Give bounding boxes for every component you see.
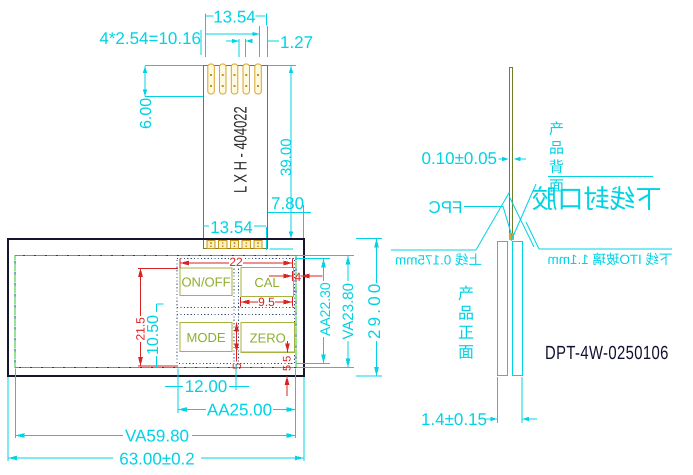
dim 12.00 [165, 386, 249, 388]
svg-text:5: 5 [230, 363, 244, 370]
button CAL [241, 268, 294, 297]
dim VA23.80 (right) [297, 256, 355, 368]
svg-text:29.00: 29.00 [365, 280, 384, 339]
red dim 22 [180, 259, 293, 269]
cyan dim 10.50 [157, 304, 164, 368]
svg-text:9.5: 9.5 [258, 295, 275, 309]
svg-text:13.54: 13.54 [213, 8, 256, 27]
red dim 4 [269, 275, 293, 277]
svg-text:1.27: 1.27 [280, 33, 313, 52]
FPC bottom pads [207, 241, 262, 249]
dim VA59.80 [15, 435, 295, 437]
svg-text:产: 产 [549, 121, 564, 138]
FPC pin 4 [243, 64, 250, 94]
red dim 21.5 [138, 268, 178, 366]
svg-text:AA22.30: AA22.30 [317, 282, 333, 336]
svg-text:VA23.80: VA23.80 [340, 283, 357, 339]
FPC pin 2 [220, 64, 227, 94]
dim 29.00 (right) [356, 239, 382, 377]
FPC body outline [204, 66, 268, 249]
button MODE [180, 323, 232, 352]
FPC pin 5 [255, 64, 261, 94]
svg-text:背: 背 [549, 159, 564, 176]
svg-text:ON/OFF: ON/OFF [181, 275, 230, 290]
label 上线 0.175mm (mirrored) [391, 249, 476, 251]
glass layer left [498, 242, 508, 376]
svg-text:品: 品 [458, 306, 474, 323]
dim AA25.00 [178, 409, 296, 411]
svg-text:下线封口胶: 下线封口胶 [531, 184, 661, 214]
label 下线封口胶 (mirrored) [548, 176, 653, 178]
svg-text:39.00: 39.00 [278, 138, 295, 176]
red dim 5.5 [287, 341, 289, 352]
svg-text:63.00±0.2: 63.00±0.2 [119, 450, 195, 469]
svg-text:CAL: CAL [254, 275, 279, 290]
dim 13.54 (top) [206, 14, 267, 31]
FPC pin 3 [231, 64, 238, 94]
svg-text:下线 ITO玻璃 1.1mm: 下线 ITO玻璃 1.1mm [547, 252, 672, 267]
svg-text:上线 0.175mm: 上线 0.175mm [395, 253, 482, 268]
svg-text:6.00: 6.00 [138, 98, 155, 129]
gold tip [509, 233, 514, 240]
svg-text:AA25.00: AA25.00 [207, 401, 272, 420]
red dim 9.5 [241, 297, 293, 307]
dim 63.00±0.2 [8, 457, 304, 459]
svg-text:5.5: 5.5 [282, 356, 294, 371]
svg-text:4: 4 [295, 270, 302, 284]
svg-text:L X H - 404022: L X H - 404022 [231, 106, 251, 193]
glass layer right [513, 242, 523, 376]
svg-text:FPC: FPC [429, 198, 463, 217]
svg-text:4*2.54=10.16: 4*2.54=10.16 [99, 29, 201, 48]
svg-text:正: 正 [458, 325, 474, 342]
svg-text:ZERO: ZERO [250, 331, 286, 346]
svg-text:13.54: 13.54 [210, 218, 253, 237]
FPC side line [510, 68, 513, 240]
small mid dim ticks [226, 40, 253, 42]
dim 6.00 [145, 66, 203, 97]
LCD module outline [8, 239, 304, 376]
svg-text:品: 品 [549, 140, 564, 157]
FPC pin 1 [208, 64, 215, 94]
svg-text:面: 面 [458, 345, 474, 362]
svg-text:10.50: 10.50 [145, 315, 162, 355]
button ZERO [241, 323, 295, 353]
svg-text:DPT-4W-0250106: DPT-4W-0250106 [545, 343, 669, 364]
dim 1.27 [268, 40, 280, 42]
svg-text:12.00: 12.00 [185, 377, 228, 396]
red dim between MODE/ZERO (5) [236, 323, 238, 362]
AA dotted grid [177, 259, 295, 364]
svg-text:VA59.80: VA59.80 [125, 427, 189, 446]
button ON/OFF [180, 268, 232, 296]
svg-text:22: 22 [229, 255, 243, 269]
svg-text:MODE: MODE [187, 330, 226, 345]
dim AA22.30 (right) [296, 259, 330, 364]
VA dashed rectangle [15, 256, 296, 368]
dim 39.00 [268, 66, 296, 239]
svg-text:0.10±0.05: 0.10±0.05 [421, 149, 497, 168]
svg-text:7.80: 7.80 [271, 194, 304, 213]
svg-text:产: 产 [458, 285, 474, 303]
bottom extension lines [8, 364, 304, 461]
label 下线 ITO玻璃 1.1mm (mirrored) [526, 222, 539, 249]
svg-text:1.4±0.15: 1.4±0.15 [421, 410, 487, 429]
